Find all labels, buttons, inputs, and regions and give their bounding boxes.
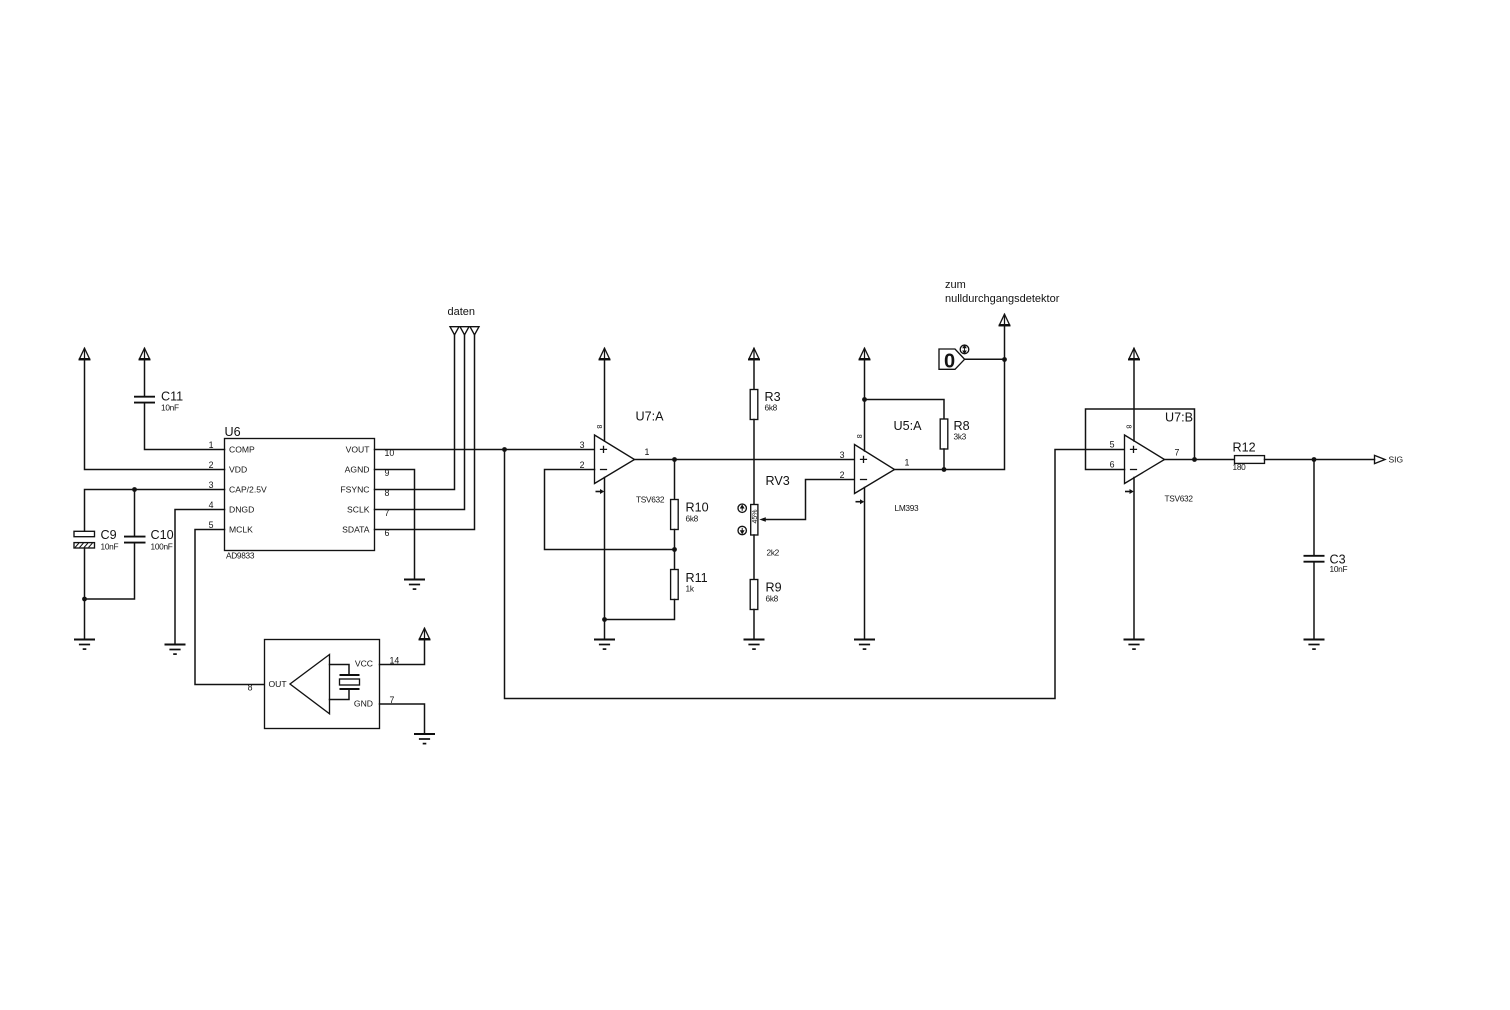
capacitor C10: [124, 528, 174, 552]
capacitor C11: [134, 390, 183, 413]
junction C10 top: [132, 487, 137, 492]
junction C9/C10 bottom: [82, 597, 87, 602]
resistor R3: [750, 390, 780, 420]
U7:B feedback wire output to inverting input: [1086, 409, 1195, 470]
U5:A V+ power wire: [864, 360, 866, 452]
svg-text:AGND: AGND: [345, 465, 370, 475]
svg-text:2: 2: [580, 460, 585, 470]
svg-text:OUT: OUT: [269, 679, 288, 689]
resistor R8: [940, 419, 969, 449]
wire VCC arrow to C11 top: [144, 360, 146, 397]
IC U6 AD9833 body: [225, 425, 375, 561]
svg-text:GND: GND: [354, 699, 373, 709]
power VCC arrow above U5:A: [859, 348, 871, 360]
svg-text:nulldurchgangsdetektor: nulldurchgangsdetektor: [945, 293, 1060, 305]
wire VOUT node down and across to U7:B noninverting input: [505, 450, 1125, 699]
svg-text:TSV632: TSV632: [636, 495, 665, 505]
wire SCLK pin7 to daten connector: [375, 335, 465, 510]
svg-text:LM393: LM393: [895, 503, 920, 513]
wire C3 bottom to ground: [1313, 562, 1315, 640]
U7:A V- wire to ground: [604, 478, 606, 640]
svg-text:VOUT: VOUT: [346, 445, 371, 455]
junction terminal 0 wire: [1002, 357, 1007, 362]
svg-text:R10: R10: [686, 501, 709, 515]
svg-text:10nF: 10nF: [1330, 564, 1348, 574]
wire MCLK pin5 to oscillator OUT: [195, 530, 265, 685]
wire oscillator GND pin to ground: [380, 704, 425, 734]
svg-text:8: 8: [1124, 425, 1133, 429]
svg-text:AD9833: AD9833: [226, 551, 255, 561]
svg-text:MCLK: MCLK: [229, 525, 253, 535]
svg-text:DNGD: DNGD: [229, 505, 254, 515]
ground below U7:B: [1124, 640, 1145, 650]
svg-text:FSYNC: FSYNC: [340, 485, 369, 495]
wire R3 bottom to RV3 top (crosses signal wire): [753, 420, 755, 505]
potentiometer RV3: [751, 474, 790, 558]
U5:A V- wire to ground: [864, 488, 866, 640]
ground below R9: [744, 640, 765, 650]
U5:A ground pin arrow mark: [856, 499, 865, 504]
svg-text:2: 2: [840, 470, 845, 480]
wire FSYNC pin8 to daten connector: [375, 335, 455, 490]
wire R12 to SIG terminal: [1265, 459, 1375, 461]
ground below AGND: [404, 580, 425, 590]
wire U7:A inverting input feedback: [545, 470, 675, 550]
svg-text:C9: C9: [101, 528, 117, 542]
power VCC arrow above U7:A: [599, 348, 611, 360]
ground below oscillator: [414, 734, 435, 744]
svg-text:3: 3: [580, 440, 585, 450]
wire R10 to R11: [674, 530, 676, 570]
ground below U7:A: [594, 640, 615, 650]
label zum nulldurchgangsdetektor: [945, 279, 1060, 305]
resistor R9: [750, 580, 781, 610]
svg-text:3: 3: [209, 480, 214, 490]
junction VOUT feedback node: [502, 447, 507, 452]
svg-text:6k8: 6k8: [686, 514, 699, 524]
svg-text:6: 6: [1110, 460, 1115, 470]
wire R11 bottom to ground line: [605, 600, 675, 620]
svg-text:8: 8: [595, 425, 604, 429]
wire U7:A output to U5:A noninverting input: [635, 459, 855, 461]
svg-text:1: 1: [905, 458, 910, 468]
svg-text:5: 5: [1110, 440, 1115, 450]
junction R8/output: [942, 467, 947, 472]
junction R11/ground line: [602, 617, 607, 622]
capacitor C3: [1304, 553, 1348, 575]
ground below U5:A: [854, 640, 875, 650]
U7:B ground pin arrow mark: [1125, 489, 1134, 494]
svg-text:C11: C11: [161, 390, 183, 404]
wire VDD pin2 to VCC arrow: [85, 360, 225, 470]
junction C3 node: [1312, 457, 1317, 462]
svg-text:VDD: VDD: [229, 465, 247, 475]
svg-text:RV3: RV3: [766, 474, 790, 488]
svg-text:U6: U6: [225, 425, 241, 439]
svg-text:daten: daten: [448, 306, 476, 318]
svg-text:U7:B: U7:B: [1165, 410, 1193, 424]
RV3 lower-direction mark: [738, 526, 746, 534]
resistor R10: [671, 500, 709, 530]
svg-text:6k8: 6k8: [766, 594, 779, 604]
wire DNGD pin4 to ground: [175, 510, 225, 645]
terminal arrow to nulldurchgangsdetektor: [999, 314, 1011, 326]
junction R8 pullup to VCC line: [862, 397, 867, 402]
svg-text:VCC: VCC: [355, 659, 373, 669]
svg-text:3: 3: [840, 450, 845, 460]
wire R9 bottom to ground: [753, 610, 755, 640]
op-amp U5:A: [855, 419, 923, 513]
power VCC arrow above C11: [139, 348, 151, 360]
resistor R12: [1233, 440, 1265, 472]
wire U7:B output to R12: [1165, 459, 1235, 461]
svg-text:7: 7: [1175, 448, 1180, 458]
wire node to C3: [1313, 460, 1315, 556]
svg-text:R9: R9: [766, 581, 782, 595]
svg-text:COMP: COMP: [229, 445, 255, 455]
wire terminal 0 to node: [965, 358, 1005, 360]
wire VCC line to R8 top: [865, 400, 945, 420]
connector daten SCLK: [460, 327, 469, 335]
ground below C3: [1304, 640, 1325, 650]
op-amp U7:B: [1125, 410, 1194, 503]
svg-text:8: 8: [248, 682, 253, 692]
power VCC arrow above U7:B: [1128, 348, 1140, 360]
wire CAP/2.5V pin3 to C9 top: [85, 490, 225, 532]
wire RV3 bottom to R9 top: [753, 535, 755, 580]
wire R8 bottom to output node: [943, 449, 945, 470]
wire SDATA pin6 to daten connector: [375, 335, 475, 530]
U7:B V+ power wire: [1133, 360, 1135, 442]
power VCC arrow left (VDD net): [79, 348, 91, 360]
terminal 0 (logic state probe): [939, 345, 969, 372]
svg-text:1: 1: [209, 440, 214, 450]
svg-text:5: 5: [209, 520, 214, 530]
wire oscillator VCC pin to power arrow: [380, 640, 425, 665]
svg-text:CAP/2.5V: CAP/2.5V: [229, 485, 267, 495]
svg-text:TSV632: TSV632: [1165, 494, 1194, 504]
svg-text:6k8: 6k8: [765, 403, 778, 413]
svg-text:C10: C10: [151, 528, 174, 542]
ground below C9: [74, 640, 95, 650]
wire C9 bottom to ground: [84, 548, 86, 640]
U7:A V+ power wire: [604, 360, 606, 442]
wire junction to C10 top plate: [134, 490, 136, 537]
svg-text:2: 2: [209, 460, 214, 470]
junction U7:A output / R10: [672, 457, 677, 462]
wire C11 bottom to COMP pin1: [145, 403, 225, 450]
svg-text:100nF: 100nF: [151, 542, 173, 552]
svg-text:1k: 1k: [686, 583, 695, 593]
svg-text:U7:A: U7:A: [636, 410, 665, 424]
svg-text:2k2: 2k2: [767, 548, 780, 558]
power VCC arrow above oscillator: [419, 628, 431, 640]
terminal SIG output: [1375, 455, 1404, 465]
U7:B V- wire to ground: [1133, 478, 1135, 640]
svg-text:3k3: 3k3: [954, 432, 967, 442]
svg-text:180: 180: [1233, 462, 1247, 472]
resistor R11: [671, 570, 708, 600]
power VCC arrow above R3: [748, 348, 760, 360]
junction U7:B output/feedback: [1192, 457, 1197, 462]
svg-text:8: 8: [855, 434, 864, 438]
oscillator module body: [265, 640, 380, 729]
junction R10/R11 feedback node: [672, 547, 677, 552]
svg-text:SIG: SIG: [1389, 455, 1404, 465]
connector daten FSYNC: [450, 327, 459, 335]
svg-text:R12: R12: [1233, 440, 1256, 454]
svg-text:10nF: 10nF: [101, 542, 119, 552]
RV3 raise-direction mark: [738, 504, 746, 512]
svg-text:SCLK: SCLK: [347, 505, 370, 515]
svg-text:SDATA: SDATA: [342, 525, 370, 535]
svg-text:45%: 45%: [752, 509, 759, 523]
wire AGND pin9 to ground: [375, 470, 415, 580]
capacitor C9 (polarized): [74, 528, 118, 552]
wire output junction to R10: [674, 460, 676, 500]
svg-text:U5:A: U5:A: [894, 419, 923, 433]
wire C10 bottom to C9 line: [85, 543, 135, 599]
wire VCC arrow to R3: [753, 360, 755, 390]
op-amp U7:A: [595, 410, 665, 505]
U7:A ground pin arrow mark: [596, 489, 605, 494]
svg-text:1: 1: [645, 447, 650, 457]
svg-text:0: 0: [944, 350, 955, 372]
wire VOUT pin10 to U7:A noninverting input: [375, 449, 595, 451]
svg-text:4: 4: [209, 500, 214, 510]
RV3 wiper arrow and wire to U5:A inverting input: [759, 480, 854, 522]
ground below DNGD: [165, 645, 186, 655]
svg-text:zum: zum: [945, 279, 966, 291]
wire U5:A output to comparator node: [895, 326, 1005, 470]
connector daten SDATA: [470, 327, 479, 335]
svg-text:10nF: 10nF: [161, 403, 179, 413]
